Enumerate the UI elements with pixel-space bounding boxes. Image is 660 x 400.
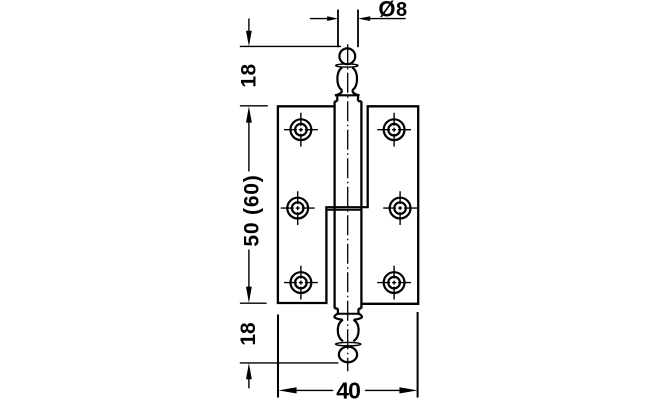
svg-text:Ø: Ø xyxy=(378,0,395,22)
svg-text:40: 40 xyxy=(336,377,360,400)
svg-text:8: 8 xyxy=(396,0,407,21)
svg-text:18: 18 xyxy=(237,63,260,87)
svg-text:18: 18 xyxy=(237,322,260,346)
svg-text:50 (60): 50 (60) xyxy=(240,174,263,246)
